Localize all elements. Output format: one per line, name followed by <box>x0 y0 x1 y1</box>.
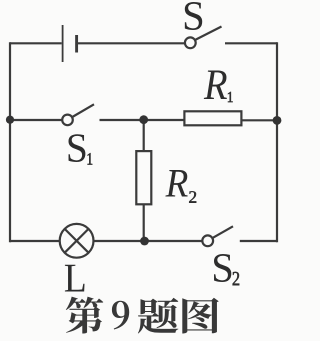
switch S contact circle <box>185 37 196 48</box>
label R2 subscript 2 <box>189 191 196 202</box>
wire right side <box>276 42 278 242</box>
label S2 (switch S2) <box>214 254 231 282</box>
wire node A to switch S1 <box>10 119 62 121</box>
wire S1 to node B <box>100 119 185 121</box>
label S1 subscript 1 <box>88 153 93 164</box>
label S (switch S) <box>185 2 202 30</box>
wire left side <box>9 42 11 242</box>
label S2 subscript 2 <box>233 272 240 285</box>
switch S2 contact circle <box>202 235 213 246</box>
resistor R2 body <box>136 151 151 204</box>
caption char 题 <box>138 298 178 334</box>
wire battery to switch S <box>78 42 184 44</box>
lamp L cross stroke 1 <box>65 229 89 253</box>
label R1 subscript 1 <box>228 92 233 102</box>
label S1 (switch S1) <box>68 134 85 162</box>
wire S2 to bottom-right corner <box>240 240 277 242</box>
node B junction dot <box>139 115 148 124</box>
battery cell: short thick plate <box>75 35 78 53</box>
switch S2 lever <box>213 226 233 238</box>
node C junction dot <box>273 116 282 125</box>
caption char 第 <box>66 297 103 334</box>
label R2 (resistor R2) <box>165 170 187 196</box>
switch S lever <box>195 27 221 40</box>
node A junction dot <box>6 116 14 124</box>
wire S to top-right corner <box>225 42 277 44</box>
switch S1 contact circle <box>62 115 73 126</box>
wire node B down to R2 <box>143 120 145 151</box>
lamp L circle <box>60 224 94 258</box>
wire lamp to node D <box>94 240 202 242</box>
resistor R1 body <box>184 111 241 125</box>
wire R1 to right side node C <box>243 119 278 121</box>
lamp L cross stroke 2 <box>65 229 89 253</box>
caption char 9 <box>112 301 129 330</box>
switch S1 lever <box>72 104 94 117</box>
label R1 (resistor R1) <box>204 71 227 99</box>
wire R2 to node D <box>143 204 145 241</box>
wire top: left corner to battery <box>10 42 62 44</box>
battery cell: long plate <box>62 25 64 62</box>
caption char 图 <box>182 298 218 334</box>
label L (lamp) <box>65 265 85 292</box>
wire bottom-left corner to lamp <box>10 240 60 242</box>
node D junction dot <box>140 237 149 246</box>
